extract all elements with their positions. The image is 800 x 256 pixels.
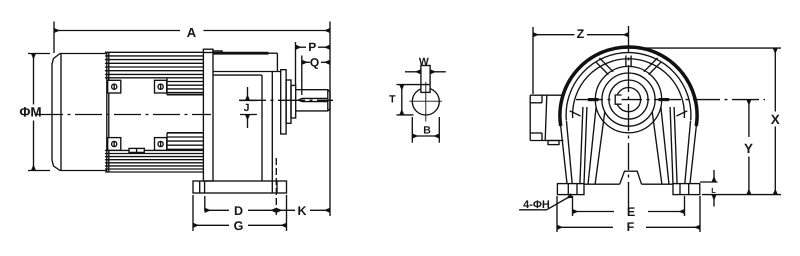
flange box bottom tab bbox=[548, 141, 559, 145]
dimension D bbox=[205, 196, 276, 211]
gusset right bbox=[677, 111, 688, 116]
svg-text:A: A bbox=[187, 25, 197, 40]
output bearing disc 3 bbox=[291, 85, 296, 118]
svg-text:X: X bbox=[771, 112, 780, 127]
dimension P bbox=[296, 42, 331, 86]
svg-text:W: W bbox=[419, 56, 429, 68]
output bearing disc 1 bbox=[281, 70, 286, 134]
svg-text:ΦM: ΦM bbox=[19, 104, 41, 119]
dimension E bbox=[573, 196, 685, 216]
svg-text:Y: Y bbox=[744, 141, 753, 156]
dimension A line bbox=[54, 22, 330, 54]
A-frame leg left bbox=[588, 107, 605, 184]
base right foot bbox=[673, 184, 700, 195]
motor cap seam bbox=[60, 54, 62, 171]
shell wall left bbox=[560, 121, 572, 184]
output shaft bbox=[296, 90, 330, 111]
dimension W bbox=[405, 71, 446, 73]
svg-text:Z: Z bbox=[577, 27, 585, 41]
right diagonal rib bbox=[644, 58, 662, 75]
output shaft key slot bbox=[299, 98, 328, 101]
dimension Z bbox=[533, 27, 629, 94]
gearbox horizontal centerline bbox=[576, 99, 765, 101]
output shaft centerline bbox=[239, 99, 333, 101]
gearbox base (side view) bbox=[193, 181, 287, 193]
shell wall right bbox=[685, 121, 697, 184]
hub circle 2 bbox=[602, 73, 655, 126]
dimension L bbox=[700, 170, 718, 207]
shaft section: circle bbox=[412, 88, 439, 115]
dimension F bbox=[557, 196, 700, 232]
dimension J bbox=[240, 87, 257, 128]
dimension K bbox=[276, 158, 330, 216]
gearbox case (side view) bbox=[213, 51, 281, 193]
right horizontal rib bar bbox=[659, 98, 670, 101]
svg-text:4-ΦH: 4-ΦH bbox=[523, 199, 550, 211]
gearbox vertical centerline bbox=[628, 26, 630, 214]
hub circle 1 bbox=[595, 66, 661, 132]
dimension Y bbox=[748, 100, 750, 195]
dimension T bbox=[397, 85, 431, 115]
shared right extension line bbox=[329, 22, 331, 217]
dome inner arc bbox=[566, 53, 691, 120]
motor mounting tab bottom-left bbox=[108, 138, 121, 151]
motor mounting tab top-left bbox=[108, 80, 121, 93]
svg-text:F: F bbox=[627, 220, 635, 234]
svg-text:J: J bbox=[244, 102, 250, 114]
dimension B bbox=[412, 117, 439, 143]
motor rear end cap bbox=[52, 54, 107, 171]
gearbox input flange column bbox=[203, 49, 213, 181]
dome outer arc bbox=[560, 47, 697, 126]
hub keyway notch bbox=[615, 95, 621, 104]
left diagonal rib bbox=[596, 58, 614, 75]
dimension G bbox=[193, 195, 287, 231]
dimension X bbox=[622, 48, 781, 195]
hub circle 3 bbox=[609, 80, 648, 119]
output bearing disc 2 bbox=[286, 80, 291, 123]
svg-text:E: E bbox=[627, 205, 635, 219]
vertical rib bbox=[626, 56, 631, 68]
dimension Q bbox=[302, 56, 330, 96]
motor fin block outline bbox=[105, 52, 203, 172]
A-frame leg right bbox=[652, 107, 669, 184]
motor fins right upper section bbox=[167, 78, 203, 95]
svg-text:P: P bbox=[308, 40, 316, 54]
hub shaft bore bbox=[616, 88, 640, 112]
dimension PhiM bbox=[28, 54, 50, 171]
motor flange box (front view, left) bbox=[530, 95, 563, 140]
dome window arc bbox=[573, 59, 685, 118]
base bottom edge with bump bbox=[584, 171, 673, 184]
gusset left bbox=[570, 111, 581, 116]
motor cooling fins bottom bbox=[105, 150, 203, 169]
svg-text:B: B bbox=[423, 124, 431, 136]
svg-text:K: K bbox=[297, 204, 306, 218]
svg-text:Q: Q bbox=[310, 56, 319, 70]
left horizontal rib bar bbox=[588, 98, 599, 101]
motor cooling fins top bbox=[105, 56, 203, 78]
svg-text:L: L bbox=[711, 186, 716, 195]
label 4-PhiH with leader bbox=[519, 196, 571, 210]
motor centerline bbox=[36, 114, 211, 116]
svg-text:D: D bbox=[234, 204, 243, 218]
svg-text:T: T bbox=[389, 94, 396, 106]
shaft section: key stem bbox=[421, 66, 430, 93]
mid wall right bbox=[670, 107, 677, 184]
motor mounting tab bottom-right bbox=[155, 138, 167, 151]
motor fins right lower section bbox=[167, 133, 203, 151]
motor mounting tab top-right bbox=[155, 80, 167, 93]
motor bottom plug box bbox=[129, 148, 144, 152]
mid wall left bbox=[580, 107, 587, 184]
base left foot bbox=[557, 184, 584, 195]
svg-text:G: G bbox=[234, 219, 244, 233]
shaft section centerlines bbox=[410, 82, 443, 122]
